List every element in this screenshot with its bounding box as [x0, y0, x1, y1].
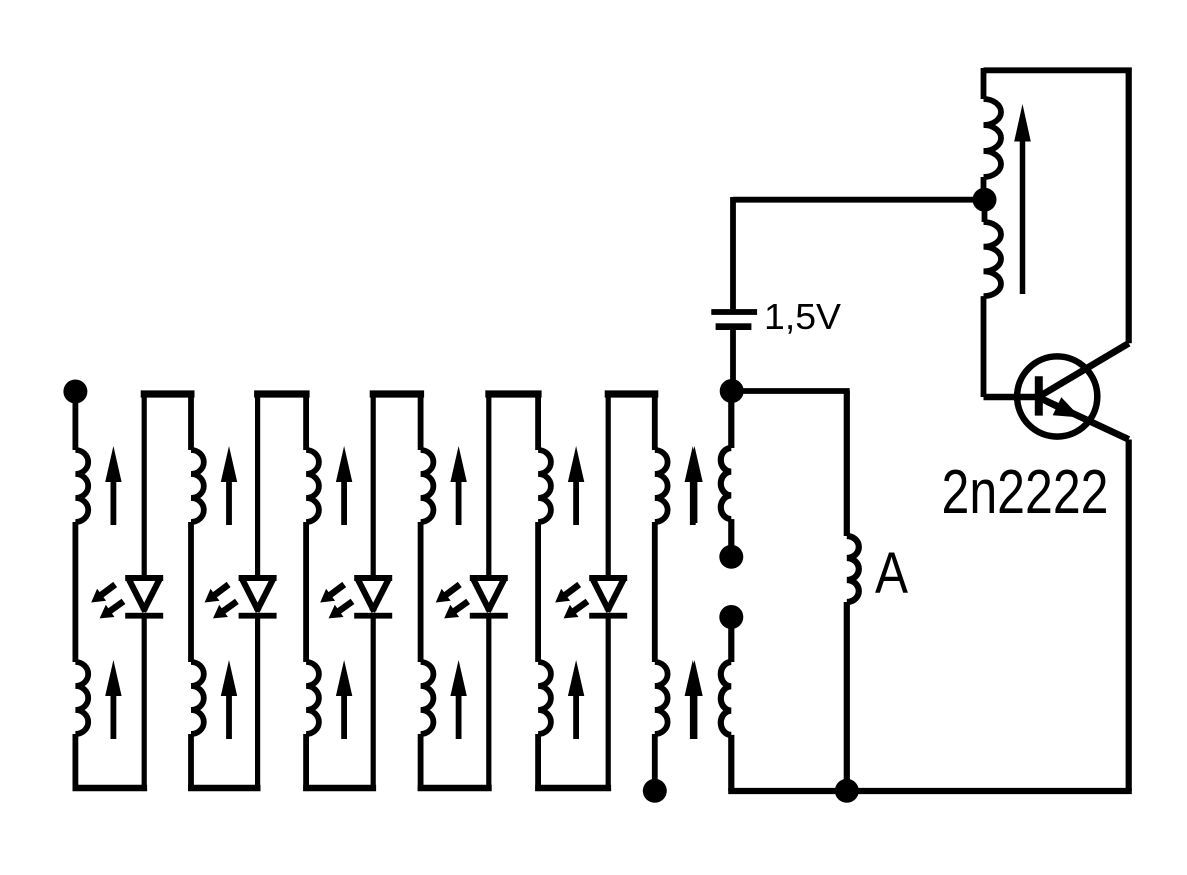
- svg-text:1,5V: 1,5V: [764, 296, 842, 337]
- svg-text:2n2222: 2n2222: [942, 458, 1109, 527]
- svg-text:A: A: [875, 541, 908, 606]
